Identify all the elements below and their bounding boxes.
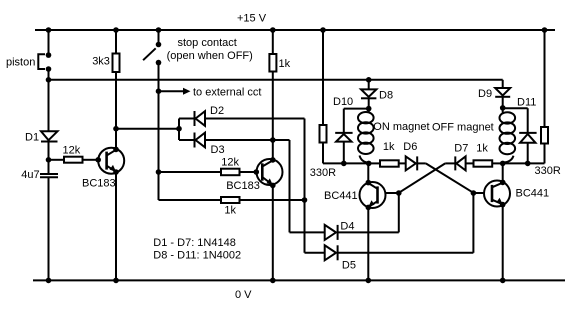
svg-text:12k: 12k [221, 156, 239, 168]
svg-text:BC441: BC441 [516, 188, 550, 200]
svg-text:4u7: 4u7 [21, 169, 39, 181]
svg-text:(open when OFF): (open when OFF) [167, 50, 253, 62]
svg-text:D8 - D11: 1N4002: D8 - D11: 1N4002 [153, 249, 241, 261]
svg-text:+15 V: +15 V [237, 12, 267, 24]
svg-text:D4: D4 [340, 221, 354, 233]
svg-text:D1 - D7: 1N4148: D1 - D7: 1N4148 [153, 237, 236, 249]
svg-text:piston: piston [6, 56, 35, 68]
svg-text:D6: D6 [403, 141, 417, 153]
svg-text:12k: 12k [63, 145, 81, 157]
svg-text:OFF magnet: OFF magnet [432, 122, 494, 134]
svg-text:D3: D3 [211, 144, 225, 156]
svg-text:D5: D5 [342, 260, 356, 272]
svg-text:0 V: 0 V [235, 289, 252, 301]
svg-text:D9: D9 [478, 88, 492, 100]
svg-text:BC183: BC183 [226, 180, 260, 192]
svg-text:BC441: BC441 [324, 190, 358, 202]
svg-text:to external cct: to external cct [193, 87, 261, 99]
svg-text:D2: D2 [210, 105, 224, 117]
svg-text:stop contact: stop contact [178, 37, 237, 49]
svg-text:1k: 1k [279, 58, 291, 70]
svg-text:1k: 1k [224, 204, 236, 216]
svg-text:D7: D7 [454, 143, 468, 155]
svg-text:D11: D11 [517, 97, 536, 109]
svg-text:ON magnet: ON magnet [373, 121, 429, 133]
svg-text:D8: D8 [379, 90, 393, 102]
svg-text:BC183: BC183 [82, 178, 116, 190]
svg-text:1k: 1k [383, 141, 395, 153]
svg-text:1k: 1k [476, 142, 488, 154]
svg-text:330R: 330R [310, 167, 336, 179]
svg-text:3k3: 3k3 [92, 55, 110, 67]
svg-text:D10: D10 [333, 96, 353, 108]
svg-text:D1: D1 [25, 132, 39, 144]
svg-text:330R: 330R [535, 165, 561, 177]
